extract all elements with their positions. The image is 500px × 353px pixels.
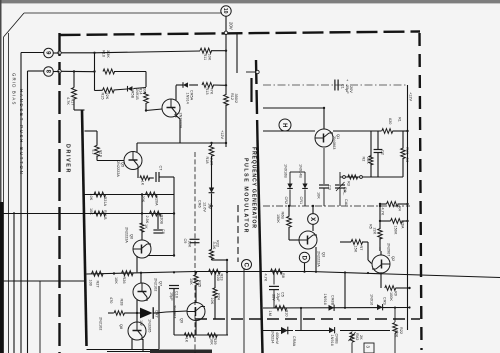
svg-text:1N5234: 1N5234	[271, 330, 275, 343]
svg-text:1N916: 1N916	[323, 294, 327, 305]
resistor R28	[114, 311, 124, 316]
svg-text:R21B: R21B	[103, 210, 107, 220]
svg-text:X: X	[309, 217, 315, 221]
wire terminal10 drop	[225, 16, 227, 31]
wire R11 to +20V rail	[211, 50, 226, 52]
svg-text:R13: R13	[205, 88, 209, 95]
capacitor C7	[155, 172, 157, 182]
wire bus row 273	[87, 272, 196, 275]
wire terminal9 left lead	[21, 52, 44, 54]
resistor 600 Q9	[207, 333, 217, 337]
wire R14 to Q4 base	[145, 103, 147, 111]
sheet border corner diagonal	[4, 13, 25, 37]
resistor R9	[385, 286, 396, 291]
wire R5 stubs	[379, 206, 381, 229]
svg-text:15K: 15K	[189, 278, 193, 285]
wire 227 drop	[226, 260, 228, 272]
resistor R10	[275, 306, 287, 311]
svg-text:2N2222A: 2N2222A	[125, 227, 129, 243]
svg-text:RV1: RV1	[405, 147, 409, 154]
resistor R2	[369, 156, 373, 165]
svg-text:R22: R22	[399, 327, 403, 334]
svg-text:R16: R16	[102, 50, 106, 57]
node 137 313	[136, 312, 138, 314]
wire Q5 collector	[136, 143, 138, 152]
zener CR6	[209, 188, 214, 193]
resistor R23	[209, 269, 221, 274]
node rail 324	[323, 107, 325, 109]
svg-text:3.3K: 3.3K	[394, 330, 398, 338]
node bus 174	[173, 271, 175, 273]
svg-text:2N4863: 2N4863	[332, 136, 336, 149]
svg-text:H: H	[281, 123, 287, 127]
svg-text:35V: 35V	[272, 294, 276, 301]
svg-text:1M: 1M	[268, 311, 272, 316]
transistor Q2	[372, 255, 390, 273]
wire R18 to CR6	[211, 156, 213, 188]
resistor R12	[224, 94, 229, 105]
svg-text:R3: R3	[347, 181, 351, 186]
transistor Q1	[315, 129, 333, 147]
wire C10 lower	[173, 289, 175, 311]
svg-text:R1: R1	[398, 117, 402, 122]
svg-text:2.5K: 2.5K	[145, 216, 149, 224]
wire Q6 collector	[147, 254, 149, 257]
svg-text:1K: 1K	[141, 181, 145, 186]
capacitor C3	[323, 148, 325, 184]
svg-text:R21A: R21A	[103, 197, 107, 207]
svg-text:CR6: CR6	[198, 200, 202, 208]
svg-text:2N2907: 2N2907	[387, 243, 391, 256]
wire X stub	[312, 206, 314, 214]
resistor R17	[72, 88, 77, 100]
svg-text:+12V: +12V	[409, 92, 413, 101]
circled D	[299, 252, 309, 262]
svg-text:47K: 47K	[209, 88, 213, 95]
wire Q8 emitter	[131, 339, 133, 350]
svg-text:4.7K: 4.7K	[381, 208, 385, 216]
node +12V corner	[225, 142, 227, 144]
svg-text:DRIVER: DRIVER	[65, 144, 71, 174]
svg-text:2N2222A: 2N2222A	[116, 161, 120, 177]
capacitor C8	[153, 229, 162, 231]
svg-text:10µF: 10µF	[170, 292, 174, 301]
wire CR7 right	[153, 312, 159, 314]
wire R9 right	[396, 287, 410, 289]
svg-text:R27: R27	[96, 281, 100, 288]
node terminal9 border	[58, 51, 61, 54]
wire R1 row	[333, 130, 382, 132]
svg-text:1N916: 1N916	[370, 294, 374, 305]
transistor Q8	[128, 322, 146, 340]
resistor R 1K emitter	[140, 176, 150, 180]
section border bottom dashed (FREQUENCY GENERATOR box)	[195, 318, 420, 320]
transistor Q9	[187, 303, 205, 321]
wire R12 drop	[236, 34, 238, 73]
svg-text:150K: 150K	[394, 226, 398, 235]
scan left edge line	[0, 0, 2, 353]
node terminal8 border	[58, 70, 61, 73]
wire R4 stubs	[380, 203, 387, 205]
svg-text:R7: R7	[359, 246, 363, 251]
wire row 213	[0, 213, 174, 215]
wire 301 vert	[300, 308, 302, 331]
node 20V on border	[224, 31, 227, 34]
svg-text:10K: 10K	[210, 298, 214, 305]
resistor R13	[202, 83, 214, 88]
svg-text:22µF: 22µF	[276, 293, 280, 302]
wire CR5A to R13	[176, 84, 183, 86]
terminal 10	[221, 6, 231, 16]
svg-text:R10: R10	[285, 310, 289, 317]
wire bottom row 349	[87, 349, 160, 351]
wire Q5 emitter	[137, 168, 139, 178]
wire R19 to Q5 base	[96, 156, 98, 161]
diode CR8B top	[329, 305, 335, 311]
svg-text:620: 620	[388, 118, 392, 124]
svg-text:2N2102: 2N2102	[99, 317, 103, 330]
wire grid bias vertical	[20, 53, 22, 353]
transistor Q4	[162, 99, 180, 117]
svg-text:470: 470	[109, 297, 113, 303]
resistor R15	[103, 88, 115, 93]
wire D drop	[304, 263, 306, 272]
svg-text:10K: 10K	[114, 277, 118, 284]
svg-text:C3: C3	[328, 185, 332, 190]
section border top dashed (PULSE MODULATOR box)	[60, 32, 421, 36]
section border right dashed vertical (FREQUENCY GENERATOR box)	[420, 33, 422, 350]
svg-text:10K: 10K	[208, 54, 212, 61]
svg-text:12.6V: 12.6V	[203, 202, 207, 212]
svg-text:R9: R9	[394, 291, 398, 296]
capacitor C2	[374, 149, 383, 151]
resistor R16	[103, 69, 115, 74]
wire bottom row 352	[107, 351, 160, 353]
svg-text:100: 100	[216, 275, 220, 281]
resistor R20B	[150, 211, 162, 216]
svg-text:D: D	[300, 256, 306, 261]
svg-text:CR8A: CR8A	[292, 336, 296, 347]
svg-text:CR8B: CR8B	[335, 334, 339, 345]
svg-text:GRID BIAS: GRID BIAS	[12, 73, 17, 106]
scan bottom dark bar	[150, 350, 212, 353]
wire R28 right	[124, 312, 140, 314]
wire bus row 281 left	[0, 280, 86, 282]
node bus 141	[140, 272, 142, 274]
svg-text:R19: R19	[99, 150, 103, 157]
capacitor C4 CAL	[339, 172, 341, 184]
svg-text:22K: 22K	[372, 228, 376, 235]
node C terminal	[242, 260, 252, 270]
wire R6B top	[288, 206, 290, 217]
svg-text:1N3265: 1N3265	[148, 319, 152, 332]
wire Q1 base row	[263, 130, 315, 132]
diode CR8A	[281, 327, 288, 334]
node row195 vert	[141, 193, 143, 195]
wire C2 stub	[377, 131, 379, 149]
wire Q7 base drop	[140, 273, 142, 283]
wire R1 right	[393, 130, 408, 132]
sheet border top line	[24, 12, 222, 14]
wire R7 wires	[340, 241, 351, 243]
capacitor C5	[273, 272, 275, 285]
svg-text:CAL: CAL	[344, 199, 348, 206]
svg-text:3.3K: 3.3K	[212, 242, 216, 250]
node bus 114	[113, 272, 115, 274]
svg-text:R18: R18	[205, 157, 209, 164]
svg-text:R14: R14	[139, 88, 143, 95]
resistor 1K Q6	[140, 223, 144, 232]
wire C7 right	[159, 176, 174, 178]
svg-text:1N91B: 1N91B	[135, 88, 139, 100]
wire row 308	[263, 307, 410, 310]
node R17 tap	[73, 70, 75, 72]
wire R3 row	[340, 176, 403, 178]
svg-text:C: C	[242, 263, 248, 268]
svg-text:20V: 20V	[349, 86, 353, 93]
wire terminal8 left lead	[28, 70, 44, 72]
wire Q8 collector	[142, 339, 144, 352]
svg-text:2N2222A: 2N2222A	[317, 251, 321, 267]
svg-text:1N914: 1N914	[185, 93, 189, 104]
diode CR9	[377, 304, 383, 310]
svg-text:100: 100	[89, 280, 93, 286]
svg-text:C1: C1	[341, 84, 345, 89]
wire Q4 collector	[175, 85, 177, 100]
transistor Q3	[299, 231, 317, 249]
wire +12V row	[137, 142, 226, 144]
wire right vert 174	[173, 177, 175, 256]
node rail131	[406, 130, 408, 132]
trimmer R3	[343, 176, 346, 179]
transistor Q7	[133, 283, 151, 301]
svg-text:C4: C4	[343, 187, 347, 192]
wire left margin 1	[8, 33, 10, 353]
wire 20V vertical	[225, 35, 227, 96]
wire 345 vert	[344, 273, 346, 308]
wire R6A stubs	[380, 220, 391, 222]
svg-text:22K: 22K	[105, 93, 109, 100]
svg-text:FREQUENCY GENERATOR: FREQUENCY GENERATOR	[251, 147, 257, 229]
connector box pin 3	[364, 343, 374, 353]
svg-text:1K: 1K	[144, 224, 148, 229]
svg-text:R25: R25	[198, 280, 202, 287]
svg-text:400mV: 400mV	[275, 332, 279, 344]
wire 159 vertical	[158, 286, 160, 349]
section divider dashed vertical (PULSE MODULATOR / FREQUENCY GENERATOR)	[256, 60, 258, 140]
svg-text:3.3K: 3.3K	[106, 50, 110, 58]
svg-text:C2: C2	[381, 150, 385, 155]
wire drop 9 to base row	[94, 53, 96, 91]
svg-text:R4: R4	[398, 206, 402, 211]
node row308 dots	[300, 307, 302, 309]
resistor R19	[95, 145, 100, 156]
svg-text:Q7: Q7	[159, 281, 163, 286]
svg-text:R6A: R6A	[401, 221, 405, 229]
svg-text:10K: 10K	[89, 194, 93, 201]
svg-text:Q8: Q8	[119, 324, 123, 329]
diode CR1	[304, 172, 306, 184]
wire 8 to R16	[53, 71, 59, 73]
capacitor C1	[334, 80, 336, 91]
svg-text:+12V: +12V	[220, 130, 224, 139]
transistor Q5	[124, 152, 142, 170]
svg-text:1N916B: 1N916B	[284, 164, 288, 178]
svg-text:CR7: CR7	[155, 310, 159, 318]
diode CR8B bottom	[329, 327, 335, 333]
svg-text:C8: C8	[161, 229, 165, 234]
wire R22 jog	[211, 259, 213, 261]
node 228	[226, 271, 228, 273]
wire R17 bottom	[73, 99, 75, 111]
svg-text:4.7K: 4.7K	[264, 274, 268, 282]
resistor R6B	[287, 216, 292, 227]
svg-text:2N2102: 2N2102	[154, 278, 158, 291]
transistor Q6	[133, 240, 151, 258]
svg-text:RV2: RV2	[355, 333, 359, 340]
resistor R6A	[391, 219, 403, 224]
wire Q1 top	[323, 108, 325, 129]
wire base row left	[95, 89, 103, 91]
resistor R21B	[94, 211, 106, 216]
wire R19 top	[96, 131, 98, 146]
wire +20 rail	[263, 84, 408, 86]
wire Q8 base	[136, 313, 138, 322]
wire R13 to rail	[213, 84, 226, 86]
wire R17 top	[73, 72, 75, 88]
svg-text:150K: 150K	[276, 214, 280, 223]
wire row 330	[263, 330, 293, 332]
svg-text:4.7: 4.7	[91, 150, 95, 155]
svg-text:CR2: CR2	[284, 197, 288, 205]
wire row 338	[174, 334, 228, 336]
svg-text:10K: 10K	[89, 208, 93, 215]
resistor R22v 3.3K	[209, 249, 213, 259]
wire CR6 to R22	[211, 194, 213, 250]
scan left edge dark bar	[0, 202, 3, 353]
svg-text:R20B: R20B	[160, 215, 164, 225]
svg-text:Q5: Q5	[121, 162, 125, 167]
wire R25 top	[195, 272, 197, 274]
svg-text:Q9: Q9	[180, 318, 184, 323]
wire diode row top	[290, 171, 305, 173]
node R18 rail	[210, 142, 212, 144]
wire 244 vertical	[243, 268, 245, 353]
node 8-junction	[93, 70, 95, 72]
dashed net line x195	[194, 152, 196, 353]
svg-text:C7: C7	[159, 166, 163, 171]
wire RV1 stubs	[402, 131, 404, 149]
svg-text:CR9: CR9	[383, 297, 387, 305]
svg-text:PULSE MODULATOR: PULSE MODULATOR	[243, 158, 249, 234]
terminal 8	[44, 67, 54, 77]
wire Q2 emitter	[380, 273, 382, 288]
node bus196	[195, 271, 197, 273]
trimmer RV2	[351, 331, 353, 332]
resistor R21A	[94, 192, 106, 197]
wire 1K to C7	[149, 177, 154, 179]
svg-text:CR8B: CR8B	[331, 295, 335, 306]
node divider stub	[256, 70, 259, 73]
wire osc collector row	[263, 107, 324, 109]
svg-text:10K: 10K	[209, 338, 213, 345]
wire R15 to CR5B	[114, 89, 128, 90]
svg-text:Q2: Q2	[391, 256, 395, 261]
wire osc row 206	[263, 205, 410, 207]
resistor R8	[271, 269, 283, 274]
svg-text:R5: R5	[369, 224, 373, 229]
wire R2 stubs	[370, 131, 372, 157]
wire R24 top	[214, 272, 216, 288]
svg-text:1K: 1K	[185, 338, 189, 343]
wire left margin 3	[39, 281, 41, 353]
svg-text:C10: C10	[175, 291, 179, 298]
svg-text:HANDSET PUSH BUTTON: HANDSET PUSH BUTTON	[19, 89, 24, 176]
resistor R24	[213, 288, 217, 298]
capacitor C9	[190, 238, 200, 240]
node row213 dots	[141, 212, 143, 214]
wire CR5B to R14	[134, 88, 147, 89]
resistor R25	[194, 275, 199, 285]
wire 174 down	[173, 311, 175, 335]
resistor R4	[387, 202, 399, 207]
wire divider stub	[246, 71, 255, 73]
wire R28 left	[108, 312, 114, 314]
svg-text:10K: 10K	[143, 87, 147, 94]
resistor R11	[200, 48, 212, 53]
circled H	[279, 119, 291, 131]
resistor R1	[382, 129, 393, 134]
wire row 195	[85, 194, 175, 196]
scan top edge band	[0, 0, 500, 3]
wire R6B to Q3 base	[288, 227, 290, 240]
svg-text:3K: 3K	[405, 158, 409, 163]
diode CR7	[140, 308, 153, 319]
resistor R26	[122, 271, 134, 276]
section border left dashed vertical	[58, 33, 60, 353]
wire +12V rail right	[407, 85, 409, 330]
svg-text:R15: R15	[101, 93, 105, 100]
svg-text:R2: R2	[362, 157, 366, 162]
wire Q6 emitter	[136, 256, 138, 272]
svg-text:25µF: 25µF	[345, 85, 349, 94]
wire Q4 emitter drop	[176, 116, 180, 120]
wire 9 to R11	[53, 52, 59, 54]
svg-text:1N914B: 1N914B	[299, 164, 303, 178]
wire R16 right	[114, 71, 146, 73]
node R6B	[288, 205, 290, 207]
circled X	[308, 214, 319, 225]
svg-text:20V: 20V	[229, 22, 234, 30]
svg-text:R20A: R20A	[155, 196, 159, 206]
terminal 9	[44, 48, 54, 58]
svg-text:10K: 10K	[317, 192, 321, 199]
node Q6 coll	[173, 254, 175, 256]
capacitor C10	[169, 285, 179, 287]
svg-text:1N916: 1N916	[330, 335, 334, 346]
svg-text:R6B: R6B	[281, 212, 285, 220]
svg-text:10K: 10K	[187, 241, 191, 248]
wire node9 run to R11	[95, 51, 201, 53]
wire Q9 base row	[156, 312, 166, 313]
node rail 85	[225, 84, 227, 86]
svg-text:22K: 22K	[366, 157, 370, 164]
wire R18 top	[211, 143, 213, 146]
wire R24 bottom	[214, 297, 216, 319]
wire 228 down	[226, 272, 228, 335]
node X row	[312, 205, 314, 207]
resistor R22	[394, 308, 396, 322]
